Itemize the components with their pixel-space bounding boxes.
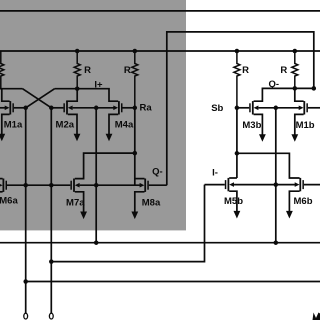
svg-text:M8a: M8a (142, 197, 161, 208)
current sink arrow below M1a (0, 134, 5, 142)
current sink arrow below M5b (234, 211, 241, 219)
svg-text:Ra: Ra (140, 103, 153, 114)
wire M6b source (289, 191, 299, 211)
wire input port 1 vertical (x=25.7) (25, 108, 27, 313)
label Q- (left block) (152, 166, 163, 177)
label node Ra (140, 103, 153, 114)
label I+ (94, 80, 103, 91)
svg-text:Q-: Q- (269, 79, 280, 90)
svg-text:I+: I+ (94, 80, 103, 91)
port terminal 2 (49, 313, 53, 319)
svg-text:R: R (280, 65, 287, 76)
wire bottom bus 1 (bulk nets) (0, 242, 320, 244)
wire M8a drain stub to Ra chain (135, 178, 145, 180)
wire M1b bulk from shared node (276, 107, 299, 109)
label Q- (right block) (269, 79, 280, 90)
wire M5b source (229, 191, 237, 211)
cropped label fragment bottom-right corner (313, 313, 320, 320)
transistor M6b (295, 178, 304, 191)
resistor R4 value label R (280, 65, 287, 76)
svg-text:M5b: M5b (224, 196, 243, 207)
resistor R1 (74, 51, 80, 89)
current sink arrow below M4a (106, 134, 113, 142)
wire Q- net: M8a gate riser and top route to right block (167, 32, 314, 185)
wire M4a gate to node Ra (123, 107, 135, 109)
svg-text:M1b: M1b (296, 120, 315, 131)
label M1a (4, 120, 23, 131)
wire input port 2 vertical (x=51.3) (50, 108, 52, 313)
wire cross-couple diagonal M1a.G to I+ (26, 89, 55, 108)
wire cross-couple left horizontal (0, 88, 23, 90)
transistor M1a (5, 101, 14, 114)
svg-text:R: R (84, 65, 91, 76)
wire I+ horizontal (55, 89, 119, 102)
wire M8a gate to Q- riser (149, 184, 167, 186)
wire M1a source (2, 114, 10, 134)
svg-text:M4a: M4a (115, 120, 134, 131)
resistor R2 (132, 51, 138, 108)
transistor M5b (225, 178, 234, 191)
wire Sb branch to M6b drain (237, 153, 300, 178)
transistor M8a (140, 179, 149, 192)
current sink arrow below M6b (286, 211, 293, 219)
wire M8a source (135, 192, 145, 212)
label M2a (56, 120, 75, 131)
label M6b (294, 196, 313, 207)
node junction dots (23, 49, 316, 284)
svg-text:M1a: M1a (4, 120, 23, 131)
resistor R1 value label R (84, 65, 91, 76)
transistor M7a (70, 179, 79, 192)
wire M1b gate to right edge (308, 107, 320, 109)
current sink arrow below M8a (131, 212, 138, 220)
wire bulk net vertical (a-block) (95, 108, 97, 243)
wire M2a gate (51, 107, 63, 109)
wire M4a source (109, 114, 118, 134)
wire M7a bulk to bulk net (80, 184, 97, 186)
resistor R4 (292, 51, 298, 88)
wire M6b gate to right edge (304, 184, 320, 186)
wire M4a bulk from shared node (96, 107, 114, 109)
wire M1b drain from Q- (295, 88, 304, 101)
svg-text:M3b: M3b (242, 120, 261, 131)
wire M8a bulk from bulk net (96, 184, 140, 186)
wire M3b source (254, 114, 263, 135)
current sink arrow below M3b (259, 134, 266, 142)
wire M5b gate from bus 2 (205, 184, 225, 186)
gray highlight box over left sub-circuit (0, 0, 186, 230)
wire row2 gate net M6a to M7a (7, 184, 70, 186)
label M4a (115, 120, 134, 131)
wire M2a bulk to shared node (73, 107, 97, 109)
current sink arrow below M2a (74, 134, 81, 142)
resistor R3 (234, 51, 240, 108)
resistor R3 value label R (242, 65, 249, 76)
svg-text:M7a: M7a (66, 197, 85, 208)
svg-text:Sb: Sb (211, 103, 223, 114)
svg-text:R: R (242, 65, 249, 76)
wire M1a bulk (0, 107, 5, 109)
current sink arrow below M7a (80, 212, 87, 220)
svg-text:M2a: M2a (56, 120, 75, 131)
label Sb (211, 103, 223, 114)
svg-text:Q-: Q- (152, 166, 163, 177)
wire M6a drain stub (0, 178, 3, 180)
svg-text:I-: I- (212, 168, 218, 179)
wire M3b gate from Sb node (237, 107, 249, 109)
label M7a (66, 197, 85, 208)
wire M2a source (68, 114, 77, 134)
svg-text:M6b: M6b (294, 196, 313, 207)
wire bottom bus 2 to M5b gate (51, 185, 204, 262)
transistor M4a (113, 101, 122, 114)
svg-text:M6a: M6a (0, 195, 18, 206)
wire M6a source stub (0, 191, 3, 193)
wire M3b bulk to shared node (258, 107, 275, 109)
transistor M3b (249, 101, 258, 114)
wire cross-couple diagonal M1a.D to M2a.G (23, 89, 52, 108)
wire Ra chain vertical (134, 108, 136, 185)
wire M7a drain riser to Ra chain (75, 153, 135, 179)
wire right bulk net vertical (275, 108, 277, 243)
wire M1a drain riser to cross-coupling (2, 89, 10, 102)
wire M5b drain stub (229, 177, 237, 179)
wire M2a drain drop (66, 89, 77, 102)
label M8a (142, 197, 161, 208)
label M5b (224, 196, 243, 207)
wire M1a gate to node (14, 107, 26, 109)
transistor M1b (299, 101, 308, 114)
label I- (212, 168, 218, 179)
wire top supply line (0, 10, 320, 12)
wire M7a source (75, 192, 84, 212)
wire M5b bulk to shared node (234, 184, 276, 186)
wire M3b drain to Q- (254, 88, 314, 101)
resistor R0 (left edge, partially cropped) (0, 51, 4, 89)
label M1b (296, 120, 315, 131)
wire bottom bus 3 (26, 281, 320, 283)
wire M1b source (295, 114, 304, 135)
wire Sb chain vertical (236, 108, 238, 178)
transistor M2a (63, 101, 72, 114)
resistor R2 value label R (124, 65, 131, 76)
current sink arrow below M1b (291, 134, 298, 142)
svg-text:R: R (124, 65, 131, 76)
port terminal 1 (24, 313, 28, 319)
wire VDD rail (0, 50, 320, 52)
wire M6b bulk from shared node (276, 184, 295, 186)
transistor M6a (cropped at left edge) (0, 179, 7, 192)
label M3b (242, 120, 261, 131)
label M6a (0, 195, 18, 206)
